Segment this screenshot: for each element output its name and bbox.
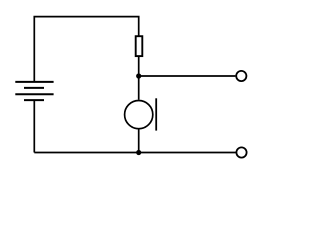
- wire bottom rail: [34, 152, 235, 154]
- wire microphone bottom to node B: [138, 129, 140, 153]
- node A junction dot: [136, 73, 141, 78]
- microphone M1 body: [125, 101, 153, 129]
- resistor R1 (IEC box): [136, 36, 143, 56]
- battery B1 short plate (upper negative): [24, 87, 44, 89]
- wire node A to top terminal: [139, 75, 236, 77]
- wire top horizontal (battery + to resistor): [34, 17, 138, 82]
- wire battery negative down to bottom rail: [33, 100, 35, 152]
- node B junction dot: [136, 150, 141, 155]
- terminal T1 (output top): [236, 71, 246, 81]
- microphone M1 diaphragm bar: [155, 98, 157, 130]
- battery B1 long plate (top, positive): [15, 81, 53, 83]
- battery B1 short plate (bottom, negative): [24, 99, 44, 101]
- battery B1 long plate (lower positive): [15, 93, 53, 95]
- terminal T2 (output bottom): [236, 147, 246, 157]
- wire resistor bottom to node A: [138, 56, 140, 76]
- wire node A down to microphone: [138, 76, 140, 100]
